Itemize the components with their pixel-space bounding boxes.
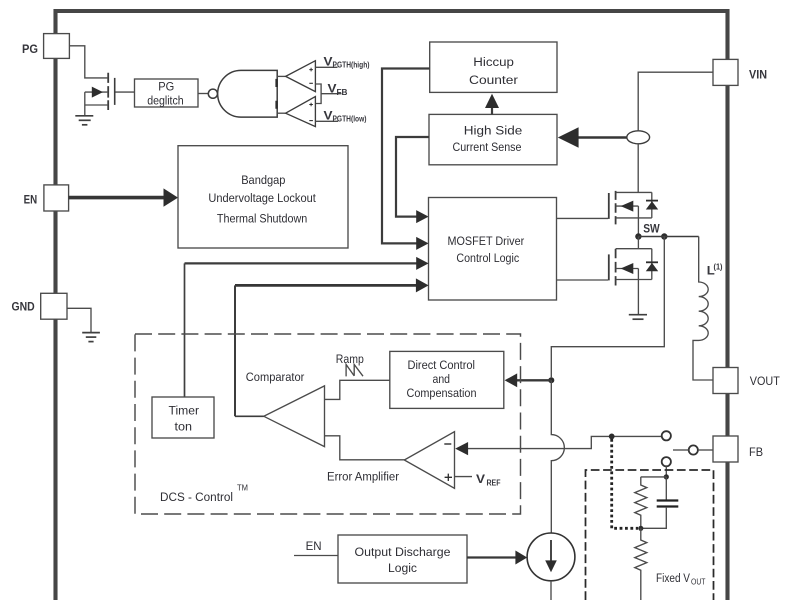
wire GND pin to ground — [67, 308, 91, 332]
switch S1 lever — [673, 449, 689, 451]
wire comparator output — [235, 415, 264, 417]
pin VOUT — [713, 368, 780, 394]
svg-text:TM: TM — [237, 484, 248, 493]
box PG deglitch — [135, 79, 199, 108]
arrow High Side Current Sense to Hiccup Counter — [491, 107, 493, 114]
svg-text:FB: FB — [337, 88, 348, 97]
current sense ellipse — [627, 131, 650, 144]
svg-text:MOSFET Driver: MOSFET Driver — [448, 234, 525, 248]
ramp waveform symbol — [346, 365, 363, 377]
box Timer ton — [152, 397, 214, 438]
box Direct Control and Compensation — [390, 351, 504, 408]
wire Hiccup Counter to MOSFET driver (arrow 2) — [382, 69, 430, 244]
svg-text:Compensation: Compensation — [407, 386, 477, 400]
svg-text:ton: ton — [175, 420, 193, 434]
transistor Q3 channel bar — [615, 249, 617, 286]
svg-text:EN: EN — [24, 192, 38, 206]
capacitor C1 — [665, 477, 667, 500]
svg-text:Thermal Shutdown: Thermal Shutdown — [217, 211, 307, 225]
svg-text:PGTH(low): PGTH(low) — [333, 114, 367, 123]
wire divider top node — [641, 476, 667, 478]
svg-text:OUT: OUT — [691, 577, 706, 586]
svg-text:Undervoltage Lockout: Undervoltage Lockout — [208, 191, 316, 205]
svg-text:REF: REF — [487, 478, 501, 487]
diode D1 (Q2 body diode) — [651, 192, 653, 218]
svg-text:deglitch: deglitch — [147, 94, 184, 108]
svg-text:Comparator: Comparator — [246, 370, 304, 384]
svg-text:Fixed V: Fixed V — [656, 571, 691, 585]
transistor Q3 drain lead — [616, 248, 652, 250]
ground (Q1 source) — [75, 116, 93, 125]
wire comparator input 1 to Direct Control — [325, 380, 390, 399]
svg-text:V: V — [476, 472, 486, 486]
NAND input stubs — [275, 79, 277, 109]
transistor Q3 source lead — [616, 279, 652, 281]
svg-text:Output Discharge: Output Discharge — [355, 545, 451, 559]
wire VREF stub — [455, 476, 473, 478]
wire driver to Q2 gate — [557, 217, 609, 219]
node B (FB select junction) — [609, 434, 615, 440]
wire node A down with hop over FB wire — [551, 380, 564, 533]
pin VIN — [713, 59, 767, 85]
resistor R1 — [635, 477, 647, 528]
svg-text:GND: GND — [12, 299, 35, 313]
svg-text:VIN: VIN — [749, 67, 767, 81]
svg-text:Control Logic: Control Logic — [456, 251, 519, 265]
wire Timer to MOSFET driver (arrow 3) — [185, 262, 417, 264]
wire current sense input (bold arrow from ellipse) — [578, 136, 627, 139]
pin GND — [12, 293, 68, 319]
resistor R2 — [635, 528, 647, 600]
transistor Q2 (high side FET) gate bar — [608, 193, 610, 219]
dashed box Fixed VOUT — [586, 470, 714, 600]
wire FB to error amplifier inverting input — [468, 436, 662, 448]
diode D2 (Q3 body diode) — [651, 249, 653, 280]
svg-text:DCS - Control: DCS - Control — [160, 490, 233, 504]
wire EN to bandgap (bold arrow) — [69, 196, 164, 200]
box Hiccup Counter — [430, 42, 557, 92]
wire NAND input 1 from comparator U2 — [277, 75, 285, 77]
transistor Q2 body arrow — [616, 205, 639, 207]
comparator U2 (VPGTH high) — [286, 61, 316, 92]
wire current source to bottom — [550, 581, 552, 600]
node VFB bracket — [315, 84, 341, 104]
wire Q1 source to ground — [84, 92, 86, 115]
svg-text:VOUT: VOUT — [750, 374, 780, 388]
wire VPGTH(low) — [315, 120, 338, 122]
transistor Q1 gate lead — [115, 91, 134, 93]
transistor Q1 (PG open-drain NMOS) channel bar — [107, 73, 109, 110]
box Bandgap / UVLO / Thermal — [178, 146, 348, 248]
node C (divider top) — [664, 474, 669, 479]
svg-text:(1): (1) — [714, 262, 723, 271]
NAND gate U1 body — [218, 70, 278, 117]
node A (direct control tap) — [548, 377, 554, 383]
svg-text:SW: SW — [643, 222, 660, 236]
node D (divider mid) — [638, 526, 643, 531]
arrow node A into Direct Control box — [516, 379, 551, 381]
pin FB — [713, 436, 763, 462]
arrow Output Discharge Logic to current source — [467, 556, 516, 558]
ground (GND pin) — [82, 333, 100, 342]
wire switch pole to FB pin — [698, 449, 713, 451]
wire PG pin to Q1 drain — [69, 46, 107, 78]
wire deglitch output to NAND bubble — [198, 93, 208, 95]
wire NAND input 2 from comparator U3 — [277, 112, 285, 114]
wire High Side Current Sense to MOSFET driver (arrow 1) — [396, 137, 429, 217]
transistor Q1 gate bar — [114, 78, 116, 105]
svg-text:Logic: Logic — [388, 561, 417, 575]
wire Q2 source to SW node — [637, 206, 639, 236]
transistor Q3 body arrow — [616, 268, 639, 270]
svg-text:Ramp: Ramp — [336, 352, 364, 366]
node SW — [635, 233, 641, 239]
wire comparator input 2 from error amplifier — [325, 436, 405, 460]
wire ellipse to Q2 drain — [637, 144, 639, 193]
dotted wire internal divider select — [612, 439, 638, 528]
svg-text:Hiccup: Hiccup — [473, 55, 514, 69]
svg-text:FB: FB — [749, 445, 763, 459]
pin EN — [24, 185, 69, 211]
wire EN to Output Discharge Logic — [294, 555, 338, 557]
transistor Q1 source lead — [85, 104, 108, 106]
transistor Q2 drain lead — [616, 191, 652, 193]
svg-text:and: and — [433, 372, 451, 386]
transistor Q3 (low side FET) gate bar — [608, 254, 610, 280]
wire VOUT sense to Direct Control node — [551, 237, 664, 378]
svg-text:EN: EN — [306, 539, 322, 553]
NAND gate U1 (mirrored) bubble — [208, 89, 217, 98]
svg-text:Direct Control: Direct Control — [408, 358, 476, 372]
svg-text:Bandgap: Bandgap — [241, 173, 285, 187]
transistor Q2 channel bar — [615, 191, 617, 225]
wire SW rail — [638, 236, 698, 238]
svg-text:PG: PG — [22, 42, 38, 56]
transistor Q1 body arrow — [85, 91, 108, 93]
svg-text:Timer: Timer — [169, 404, 200, 418]
wire switch contact to internal divider — [665, 466, 667, 477]
wire VPGTH(high) — [315, 66, 337, 68]
wire VIN to sense ellipse — [638, 72, 713, 131]
svg-text:Counter: Counter — [469, 73, 518, 87]
svg-text:PG: PG — [158, 79, 174, 93]
box High Side Current Sense — [429, 114, 557, 164]
comparator U4 — [264, 386, 325, 447]
error amplifier U5 — [404, 432, 454, 489]
svg-text:Current Sense: Current Sense — [453, 140, 522, 154]
pin PG — [22, 34, 69, 59]
transistor Q2 source lead — [616, 217, 652, 219]
wire driver to Q3 gate — [557, 279, 609, 281]
box Output Discharge Logic — [338, 535, 467, 583]
comparator U3 (VPGTH low) — [286, 97, 316, 127]
inductor L1 — [693, 237, 713, 381]
current source I1 — [527, 533, 575, 581]
switch S1 contacts — [662, 431, 671, 440]
box MOSFET Driver Control Logic — [429, 198, 557, 301]
wire comparator to MOSFET driver (arrow 4, bold) — [235, 284, 417, 287]
wire SW to Q3 drain — [637, 237, 639, 249]
ground (power stage) — [629, 315, 647, 320]
svg-text:Error Amplifier: Error Amplifier — [327, 470, 399, 484]
dashed box DCS-Control — [135, 334, 521, 514]
wire Q3 source to ground — [637, 269, 639, 315]
svg-text:PGTH(high): PGTH(high) — [333, 61, 370, 70]
svg-text:High Side: High Side — [464, 124, 523, 138]
